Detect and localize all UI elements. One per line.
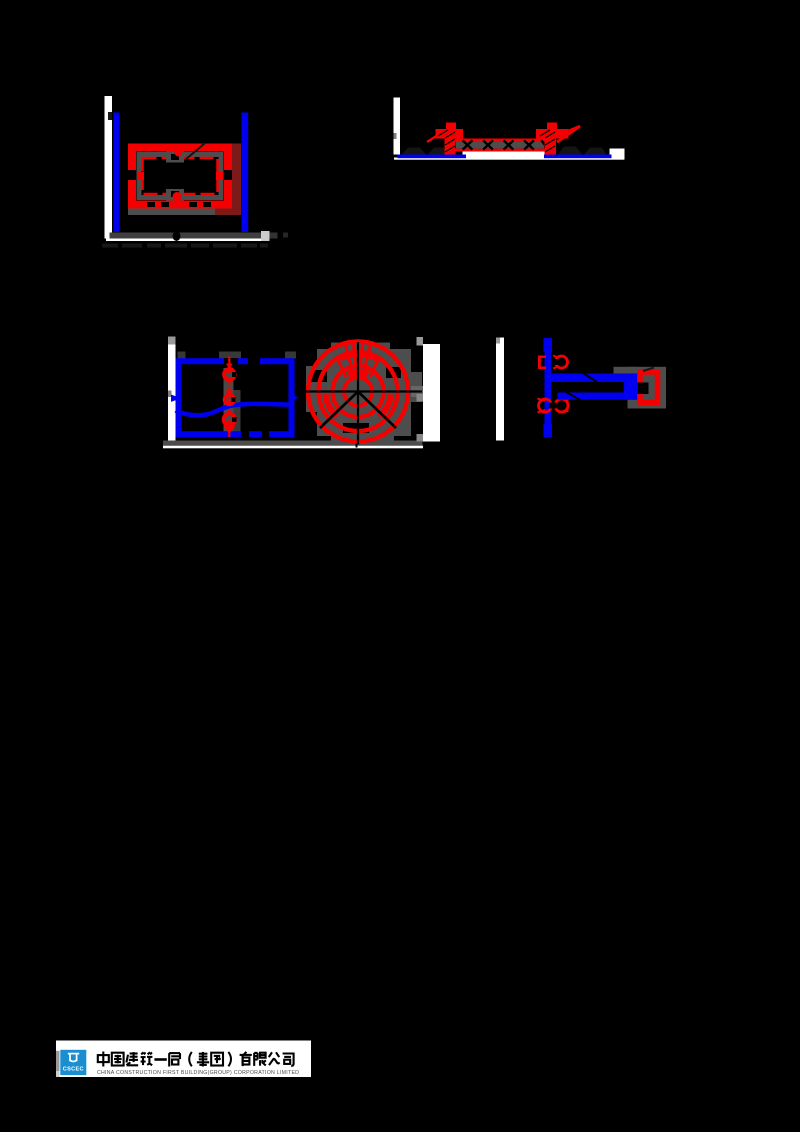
- left pier cap: [436, 129, 464, 139]
- drawing 1: column formwork cross-section: [102, 96, 288, 248]
- svg-text:CSCEC: CSCEC: [63, 1067, 84, 1073]
- CSCEC white emblem: [68, 1054, 79, 1062]
- black tie slot left border: [128, 170, 136, 180]
- blue base line right: [544, 155, 612, 159]
- black cutout right: [386, 367, 401, 378]
- dark scaffold trapezoids left: [402, 147, 606, 155]
- glyph you: [240, 1052, 252, 1066]
- red hatch top arc: [348, 372, 368, 375]
- right pier cap: [536, 129, 569, 139]
- gray right mid ext: [411, 386, 423, 397]
- red tie bracket top-left: [538, 356, 541, 370]
- black dashes top edge: [224, 358, 238, 364]
- gray notch bottom: [417, 434, 424, 442]
- gray backdrop main: [317, 349, 411, 436]
- left cap diagonal: [427, 131, 444, 142]
- wall stud white bar: [394, 98, 401, 155]
- gray inset frame: [139, 155, 221, 198]
- wall stud white bar left: [105, 96, 113, 239]
- shadow dark red strip right: [232, 144, 241, 214]
- red radial hatch top: [346, 344, 371, 368]
- clamp leader diagonal: [643, 368, 654, 372]
- right pier hatch: [540, 130, 555, 152]
- glyph gong: [269, 1052, 280, 1065]
- inner red frame: [143, 158, 218, 194]
- shadow dark red strip bottom-right: [215, 209, 241, 216]
- blue waler bottom bar: [558, 393, 638, 400]
- fullwidth close paren: [228, 1052, 231, 1066]
- bar gray cap: [168, 337, 176, 345]
- glyph zhong: [98, 1052, 109, 1067]
- company logo strip: [56, 1041, 311, 1078]
- right cap diagonal long: [557, 126, 580, 142]
- black crosshair horizontal: [303, 390, 422, 392]
- bar gray cap: [496, 338, 500, 344]
- gray blocks above top edge: [178, 352, 186, 359]
- black crosshair vertical: [357, 342, 359, 445]
- gray backdrop right ext: [411, 372, 422, 402]
- scaffold tube blue left: [114, 113, 120, 233]
- white bar left: [496, 338, 504, 441]
- red ring 3: [333, 366, 384, 417]
- clamp black hole: [638, 383, 649, 395]
- Chinese company name (drawn glyphs): [98, 1052, 294, 1067]
- ground white line: [163, 446, 423, 449]
- scaffold tube blue right: [242, 113, 249, 233]
- red tick right: [216, 172, 223, 180]
- black lattice X marks: [464, 141, 549, 149]
- ground gray strip: [163, 441, 423, 446]
- blue base line left: [398, 155, 467, 159]
- gray lattice zone: [456, 142, 544, 149]
- base gray bar: [110, 233, 262, 239]
- drawing 3: wall formwork elevation with centre line: [163, 337, 423, 449]
- blue wall tab top: [544, 338, 553, 352]
- blue panel frame: [179, 361, 292, 434]
- red tie ring bottom-left: [539, 399, 552, 412]
- drawing 4: wall tie and waler detail plan: [496, 338, 666, 441]
- base far speck: [283, 233, 288, 238]
- drawing 3b: circular column formwork plan: [303, 337, 440, 445]
- red ring 2: [319, 352, 398, 431]
- faint caption text row: [102, 244, 268, 248]
- black spoke lower-left: [320, 392, 358, 429]
- white strip: [56, 1041, 311, 1078]
- gray backdrop top ext: [331, 343, 390, 350]
- black cutout bottom: [343, 423, 369, 433]
- gray tab top center: [166, 152, 184, 163]
- gray backdrop bottom ext: [331, 436, 394, 442]
- black cutout left: [311, 370, 327, 382]
- glyph guo: [112, 1053, 124, 1066]
- stud gray notch: [394, 133, 397, 139]
- gray notch mid: [417, 394, 424, 402]
- CSCEC blue square: [60, 1050, 86, 1075]
- red tie ring bottom-right: [555, 399, 568, 412]
- gray band behind centre line: [224, 368, 234, 432]
- red tie ring top-right: [556, 356, 568, 368]
- glyph xian: [254, 1053, 266, 1066]
- base white underline: [106, 239, 263, 242]
- red patch lower-right arc: [379, 394, 391, 416]
- white slab mid band: [463, 152, 545, 160]
- gray tab bottom center: [166, 189, 184, 201]
- stud notch: [108, 112, 112, 120]
- drawing 2: beam and slab formwork section: [394, 98, 625, 160]
- fullwidth open paren: [189, 1052, 192, 1066]
- red ring inner: [344, 378, 372, 406]
- black crack bottom bar: [566, 392, 580, 400]
- black dashes on bottom border: [147, 202, 155, 207]
- black spoke lower-right: [358, 392, 396, 429]
- black arrow dot on base: [173, 231, 181, 241]
- blue arrow left: [171, 395, 181, 402]
- waler interior black: [558, 382, 624, 393]
- right pier red column: [545, 134, 557, 155]
- white baseline underline: [394, 158, 624, 160]
- left pier hatch: [438, 130, 455, 152]
- blue wall tab bottom: [544, 424, 553, 437]
- black dashes bottom edge: [241, 431, 249, 437]
- glyph ji: [197, 1052, 209, 1067]
- red centre line: [228, 357, 230, 439]
- glyph ju: [169, 1053, 180, 1066]
- red clamp frame: [640, 372, 658, 403]
- gray backdrop behind clamp: [628, 367, 667, 409]
- gray sliver left: [56, 1051, 60, 1077]
- svg-text:CHINA CONSTRUCTION FIRST BUILD: CHINA CONSTRUCTION FIRST BUILDING(GROUP)…: [97, 1070, 299, 1076]
- glyph tuan: [211, 1053, 223, 1066]
- left pier red column: [445, 134, 456, 155]
- blue wall line: [545, 338, 552, 437]
- red symbol C: [224, 414, 235, 425]
- red beam top chord: [449, 139, 553, 142]
- centre tick on ground strip: [356, 441, 358, 448]
- base dark tail: [270, 233, 278, 239]
- red symbol B: [226, 391, 234, 398]
- glyph jian: [126, 1052, 138, 1065]
- blue waler right cap: [624, 374, 638, 400]
- glyph yi: [154, 1058, 166, 1061]
- black crack top bar: [583, 373, 597, 382]
- red ring outer: [308, 342, 408, 442]
- black tie slot right border: [224, 170, 232, 180]
- gray notch top: [417, 337, 424, 346]
- blue wavy parting line: [176, 404, 295, 415]
- gray backdrop left ext: [306, 366, 317, 412]
- leader line: [185, 143, 205, 160]
- left pier tip: [446, 123, 456, 130]
- red patch lower-left arc: [326, 394, 338, 416]
- glyph zhu: [141, 1052, 153, 1065]
- blue arrow right: [289, 394, 300, 402]
- glyph si: [283, 1054, 294, 1066]
- right pier tip: [547, 123, 557, 130]
- outer red formwork frame: [132, 148, 228, 205]
- red tie dot bottom: [173, 192, 182, 201]
- gray plate under formwork: [128, 209, 215, 216]
- red symbol A: [226, 364, 233, 370]
- white slab right band: [610, 149, 625, 160]
- white bar right: [423, 344, 440, 442]
- blue waler top bar: [551, 374, 638, 383]
- tab notch top: [171, 154, 179, 160]
- white bar left: [168, 337, 176, 442]
- red tick left: [137, 172, 144, 180]
- red beam bottom chord: [449, 149, 553, 152]
- right cap diagonal short: [563, 127, 578, 134]
- bar gray notch: [168, 391, 172, 398]
- red tie dot top: [175, 149, 183, 157]
- base light square right: [261, 231, 270, 241]
- tab notch bottom: [171, 191, 179, 197]
- red tie ticks bottom: [538, 399, 569, 413]
